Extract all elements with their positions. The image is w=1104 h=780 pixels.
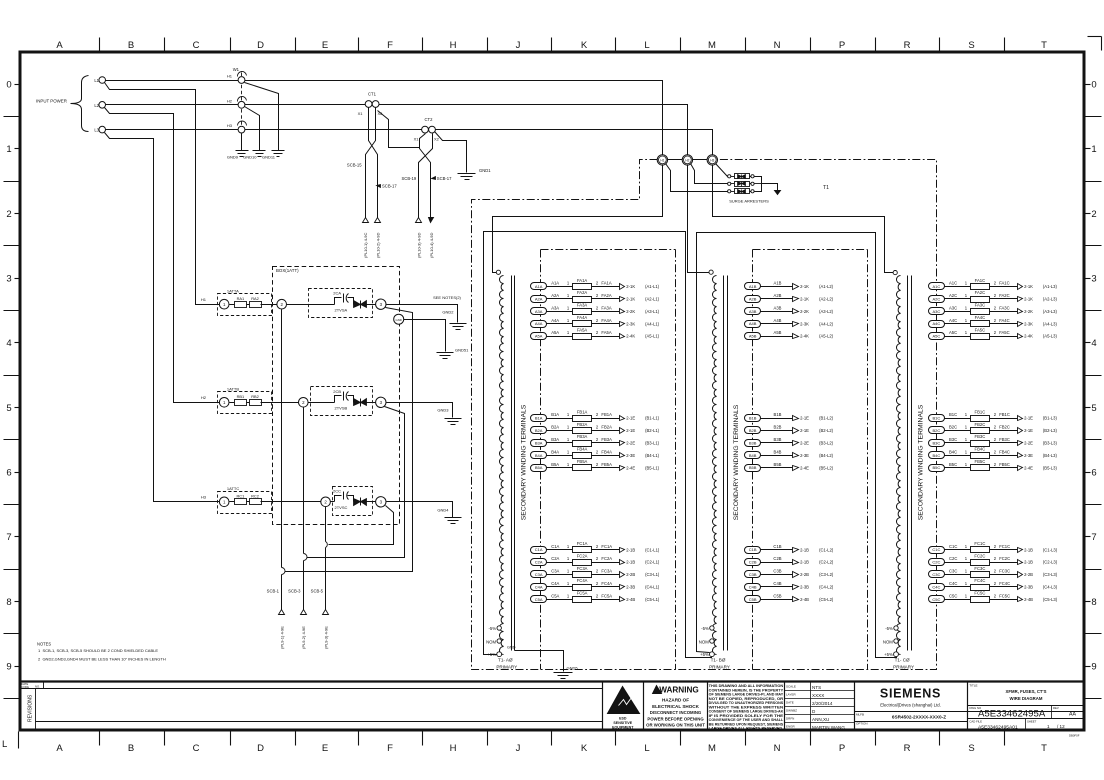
svg-text:1: 1: [1047, 724, 1050, 729]
svg-text:HAZARD OF: HAZARD OF: [662, 698, 689, 703]
svg-text:FA3A: FA3A: [577, 303, 587, 308]
bushing H3: [707, 155, 717, 165]
off-sheet arrow for A5C: [1018, 334, 1023, 339]
svg-text:A4B: A4B: [774, 318, 782, 323]
winding start node T1 phase B: [709, 270, 713, 274]
svg-text:FC2C: FC2C: [999, 556, 1010, 561]
svg-text:C2C: C2C: [932, 560, 940, 565]
tap -5% phase C: [894, 626, 898, 630]
wire L3 phase line to T1 H3: [106, 130, 713, 156]
svg-text:2-1B: 2-1B: [800, 547, 809, 552]
svg-text:(C4-L2): (C4-L2): [819, 585, 834, 590]
terminal 1 of 1ATTA: [219, 299, 229, 309]
svg-text:2-3E: 2-3E: [626, 453, 635, 458]
svg-text:FC3A: FC3A: [577, 566, 588, 571]
svg-text:FC4C: FC4C: [999, 581, 1010, 586]
terminal B2B: [745, 427, 761, 434]
terminal A3C: [929, 308, 945, 315]
svg-text:H2: H2: [227, 98, 233, 103]
svg-text:B5A: B5A: [535, 465, 543, 470]
off-sheet arrow for A2A: [620, 297, 625, 302]
svg-text:B2A: B2A: [535, 428, 543, 433]
svg-text:SECONDARY WINDING TERMINALS: SECONDARY WINDING TERMINALS: [521, 404, 528, 520]
off-sheet arrow for C5B: [793, 597, 799, 602]
wire fuse FC1C to sheet arrow: [990, 549, 1018, 551]
svg-text:FC1C: FC1C: [999, 544, 1010, 549]
svg-text:B2B: B2B: [749, 428, 757, 433]
wire fuse FC4A to sheet arrow: [592, 586, 620, 588]
svg-text:L2: L2: [94, 103, 99, 108]
svg-text:T1- AØ: T1- AØ: [498, 658, 513, 663]
svg-text:GND1: GND1: [479, 168, 491, 173]
svg-text:H2: H2: [201, 395, 207, 400]
svg-text:(C4-L3): (C4-L3): [1043, 585, 1058, 590]
svg-text:J: J: [516, 743, 521, 754]
svg-text:(B1-L3): (B1-L3): [1043, 416, 1058, 421]
wire H1-H2-H3 bus: [658, 159, 718, 161]
svg-text:(C5-L1): (C5-L1): [645, 597, 660, 602]
svg-text:GND51: GND51: [455, 348, 469, 353]
svg-text:L: L: [644, 743, 649, 754]
svg-text:FA1C: FA1C: [975, 278, 985, 283]
svg-text:(PL10-4) 4-9D: (PL10-4) 4-9D: [429, 233, 434, 258]
suppressor 2CA / 2TVSA sub-box: [309, 289, 373, 318]
wire fuse FA5C to sheet arrow: [990, 336, 1018, 338]
resistor RC2: [250, 499, 262, 505]
wire 1ATTB terminal3 drop: [307, 407, 405, 558]
svg-text:XFMR, FUSES, CT'S: XFMR, FUSES, CT'S: [1006, 689, 1047, 694]
svg-text:WARNING: WARNING: [659, 686, 699, 695]
svg-text:B3A: B3A: [535, 440, 543, 445]
svg-text:(C5-L3): (C5-L3): [1043, 597, 1058, 602]
svg-text:C4C: C4C: [932, 584, 940, 589]
svg-text:RA2: RA2: [251, 296, 259, 301]
terminal 2 of 1ATTB: [299, 398, 309, 408]
wire fuse FB1C to sheet arrow: [990, 418, 1018, 420]
svg-text:SCB-17: SCB-17: [437, 176, 452, 181]
attenuator 1ATTC sub-box: [218, 492, 272, 514]
svg-text:N: N: [774, 40, 781, 51]
svg-text:2CB: 2CB: [333, 389, 341, 394]
fuse FC5A: [573, 597, 592, 603]
ground GND5: [554, 672, 573, 674]
svg-text:C2A: C2A: [551, 556, 559, 561]
svg-text:B2C: B2C: [933, 428, 941, 433]
svg-text:2/20/2014: 2/20/2014: [812, 701, 833, 706]
primary neutral wire phase A to B: [484, 232, 712, 658]
wire 1ATTB output to GND3: [387, 403, 453, 418]
terminal A2B: [745, 296, 761, 303]
svg-text:CT1: CT1: [368, 92, 377, 97]
surge arrester 3: [728, 190, 731, 193]
svg-text:A3A: A3A: [551, 305, 559, 310]
svg-text:A5B: A5B: [749, 334, 757, 339]
terminal 3 of 1ATTA: [376, 299, 386, 309]
svg-text:1: 1: [6, 144, 11, 155]
svg-text:B1B: B1B: [774, 412, 782, 417]
wire fuse FA1C to sheet arrow: [990, 286, 1018, 288]
wire terminal A3B to sheet arrow: [760, 311, 793, 313]
resistor RA2: [250, 302, 262, 308]
terminal B4B: [745, 452, 761, 459]
terminal C1C: [929, 547, 945, 554]
wire fuse FB2A to sheet arrow: [592, 430, 620, 432]
surge arrester 1: [728, 175, 731, 178]
svg-text:8: 8: [6, 597, 11, 608]
wire terminal C1B to sheet arrow: [760, 549, 793, 551]
revision strip: [21, 682, 1085, 730]
ground GND51: [437, 352, 454, 354]
svg-text:(PL10-1) 4-9C: (PL10-1) 4-9C: [363, 233, 368, 258]
svg-text:2-2E: 2-2E: [626, 441, 635, 446]
svg-text:C3A: C3A: [535, 572, 543, 577]
svg-text:-5%: -5%: [488, 626, 496, 631]
wire terminal B5C to fuse FB5C: [944, 467, 971, 469]
wire GND terminal to GND51: [404, 320, 446, 352]
terminal 2 of 1ATTA: [277, 299, 287, 309]
svg-text:RA1: RA1: [237, 296, 245, 301]
wire terminal1 to RC1: [230, 501, 235, 503]
svg-text:B2B: B2B: [774, 425, 782, 430]
wire terminal A3A to fuse FA3A: [546, 311, 573, 313]
svg-text:H1: H1: [227, 74, 233, 79]
svg-text:FA1A: FA1A: [577, 278, 587, 283]
fuse FB4A: [573, 453, 592, 459]
svg-text:(B5-L2): (B5-L2): [819, 465, 834, 470]
svg-text:(C3-L1): (C3-L1): [645, 572, 660, 577]
svg-text:CAD FILE: CAD FILE: [969, 719, 982, 723]
wire terminal C3B to sheet arrow: [760, 574, 793, 576]
svg-text:FC5A: FC5A: [577, 591, 588, 596]
svg-text:B4B: B4B: [774, 449, 782, 454]
svg-text:FB1A: FB1A: [577, 409, 588, 414]
wire terminal A1B to sheet arrow: [760, 286, 793, 288]
switch W1 pole 3: [238, 126, 245, 133]
svg-text:C4A: C4A: [551, 581, 559, 586]
svg-text:SCB-5: SCB-5: [311, 588, 324, 593]
svg-text:FB2C: FB2C: [999, 425, 1010, 430]
svg-text:GND: GND: [507, 646, 516, 650]
svg-text:2-2B: 2-2B: [800, 572, 809, 577]
svg-text:SCB-1: SCB-1: [267, 588, 280, 593]
svg-text:0: 0: [1091, 80, 1096, 91]
svg-text:TITLE: TITLE: [969, 683, 977, 687]
connector arrow PL10-1: [363, 218, 369, 223]
off-sheet arrow for B5A: [620, 466, 625, 471]
svg-text:DRFN: DRFN: [786, 716, 794, 720]
off-sheet arrow for C2B: [793, 560, 799, 565]
winding start node T1 phase A: [496, 270, 500, 274]
svg-text:2-4K: 2-4K: [800, 334, 809, 339]
svg-text:S: S: [968, 743, 974, 754]
tap NOM phase A: [497, 639, 501, 643]
connector arrow PL9-3: [323, 610, 329, 615]
svg-text:FB4A: FB4A: [601, 449, 612, 454]
svg-text:C5A: C5A: [551, 593, 559, 598]
svg-text:C1A: C1A: [551, 544, 559, 549]
svg-text:2-1E: 2-1E: [800, 416, 809, 421]
terminal 3 of 1ATTC: [376, 497, 386, 507]
wire H3 feed to phase C winding: [713, 165, 894, 273]
svg-text:1 SCB-1, SCB-3, SCB-5 SHOULD: 1 SCB-1, SCB-3, SCB-5 SHOULD BE 2 COND S…: [38, 648, 158, 653]
svg-text:A5A: A5A: [551, 330, 559, 335]
svg-text:2-1K: 2-1K: [800, 284, 809, 289]
wire fuse FA3A to sheet arrow: [592, 311, 620, 313]
label SCB-17 with pointer at CT2: [432, 177, 436, 180]
svg-text:K: K: [581, 40, 588, 51]
svg-text:6: 6: [6, 468, 11, 479]
svg-text:A3B: A3B: [749, 309, 757, 314]
ground GND11: [272, 150, 285, 152]
svg-text:2-3K: 2-3K: [626, 321, 635, 326]
svg-text:SCB-19: SCB-19: [402, 176, 417, 181]
off-sheet arrow for B3B: [793, 441, 799, 446]
svg-text:B1A: B1A: [551, 412, 559, 417]
resistor RA1: [235, 302, 247, 308]
wire W1 pole1 blade to GND11: [245, 83, 279, 151]
svg-text:A5E33462495A01: A5E33462495A01: [978, 724, 1018, 730]
off-sheet arrow for B2B: [793, 428, 799, 434]
wire fuse FC5C to sheet arrow: [990, 599, 1018, 601]
suppressor 2CB / 2TVSB sub-box: [311, 387, 373, 416]
svg-text:A1B: A1B: [749, 284, 757, 289]
tap -5% phase B: [710, 626, 714, 630]
svg-text:PRIMARY: PRIMARY: [709, 664, 730, 669]
svg-text:FB5C: FB5C: [999, 462, 1010, 467]
svg-text:B1B: B1B: [749, 416, 757, 421]
svg-text:FA5C: FA5C: [975, 327, 985, 332]
svg-text:(C1-L2): (C1-L2): [819, 547, 834, 552]
svg-text:AA: AA: [1069, 712, 1076, 718]
svg-text:(A2-L3): (A2-L3): [1043, 297, 1058, 302]
svg-text:NOTES: NOTES: [37, 641, 51, 646]
terminal L2: [99, 102, 106, 109]
terminal A3A: [531, 308, 547, 315]
svg-text:5: 5: [6, 403, 11, 414]
svg-text:2: 2: [6, 209, 11, 220]
svg-text:(PL9-3) 4-9E: (PL9-3) 4-9E: [324, 626, 329, 649]
svg-text:2-3B: 2-3B: [626, 585, 635, 590]
svg-text:GND5: GND5: [567, 666, 579, 671]
fuse FC1A: [573, 547, 592, 553]
svg-text:2-1E: 2-1E: [1024, 428, 1033, 433]
tap +5% phase B: [710, 652, 715, 657]
svg-text:C2B: C2B: [749, 560, 757, 565]
wire fuse FB5C to sheet arrow: [990, 467, 1018, 469]
svg-text:2-1B: 2-1B: [626, 560, 635, 565]
svg-text:C1C: C1C: [949, 544, 957, 549]
terminal A1C: [929, 283, 945, 290]
wire terminal C2B to sheet arrow: [760, 562, 793, 564]
wire fuse FA2A to sheet arrow: [592, 298, 620, 300]
svg-text:C2B: C2B: [773, 556, 781, 561]
svg-text:(C2-L1): (C2-L1): [645, 560, 660, 565]
fuse FC3C: [971, 572, 990, 578]
wire terminal B4B to sheet arrow: [760, 455, 793, 457]
svg-text:A1A: A1A: [535, 284, 543, 289]
svg-text:CT2: CT2: [425, 117, 434, 122]
svg-text:-5%: -5%: [885, 626, 893, 631]
svg-text:FC3A: FC3A: [601, 569, 612, 574]
svg-text:MARTIN,WANG: MARTIN,WANG: [812, 725, 845, 730]
svg-text:FA2A: FA2A: [577, 290, 587, 295]
off-sheet arrow for A1B: [793, 284, 799, 290]
fuse FC2C: [971, 560, 990, 566]
fuse FB5A: [573, 465, 592, 471]
svg-text:T: T: [1041, 743, 1047, 754]
svg-text:0: 0: [6, 80, 11, 91]
svg-text:CODE: CODE: [22, 685, 30, 689]
wire fuse FB3A to sheet arrow: [592, 442, 620, 444]
fuse FB2A: [573, 428, 592, 434]
svg-text:X2: X2: [434, 137, 440, 142]
wire terminal A4C to fuse FA4C: [944, 323, 971, 325]
fuse FA4A: [573, 321, 592, 327]
svg-text:(A1-L2): (A1-L2): [819, 284, 834, 289]
svg-text:2-2K: 2-2K: [800, 309, 809, 314]
svg-text:2-4K: 2-4K: [1024, 334, 1033, 339]
connector arrow PL10-2: [375, 218, 381, 223]
fuse FC4C: [971, 585, 990, 591]
svg-text:(A4-L2): (A4-L2): [819, 321, 834, 326]
wire CT2 X2 to GND1: [435, 132, 467, 173]
ground GND9: [236, 150, 249, 152]
wire terminal C4C to fuse FC4C: [944, 586, 971, 588]
svg-text:FA4A: FA4A: [601, 318, 611, 323]
fuse FC5C: [971, 597, 990, 603]
svg-text:RB1: RB1: [237, 394, 245, 399]
wire terminal C2A to fuse FC2A: [546, 562, 573, 564]
svg-text:FA4C: FA4C: [975, 315, 985, 320]
svg-text:2-2B: 2-2B: [1024, 572, 1033, 577]
svg-text:A3C: A3C: [949, 305, 957, 310]
svg-text:2-4E: 2-4E: [1024, 465, 1033, 470]
svg-text:C4C: C4C: [949, 581, 957, 586]
svg-text:DB0F0F: DB0F0F: [1069, 734, 1080, 738]
svg-text:2-4B: 2-4B: [800, 597, 809, 602]
svg-text:2 GND2,GND3,GND4 MUST BE LESS: 2 GND2,GND3,GND4 MUST BE LESS THAN 10" I…: [38, 656, 166, 661]
off-sheet arrow for A2C: [1018, 297, 1023, 302]
ground GND1: [458, 173, 476, 175]
svg-text:FA4A: FA4A: [577, 315, 587, 320]
svg-text:2-4B: 2-4B: [626, 597, 635, 602]
svg-text:C2A: C2A: [535, 560, 543, 565]
svg-text:(B5-L1): (B5-L1): [645, 465, 660, 470]
wire 1ATTC terminal2 drop with twist: [325, 507, 327, 542]
svg-text:(B2-L1): (B2-L1): [645, 428, 660, 433]
svg-text:2-1E: 2-1E: [800, 428, 809, 433]
wire terminal 2 to capacitor network: [309, 402, 335, 404]
wire fuse FC1A to sheet arrow: [592, 549, 620, 551]
terminal C5A: [531, 596, 547, 603]
fuse FB4C: [971, 453, 990, 459]
svg-text:F: F: [387, 40, 393, 51]
off-sheet arrow for A1A: [620, 284, 625, 290]
svg-text:SENSITIVE: SENSITIVE: [613, 721, 632, 725]
wire H1 feed to phase A winding: [493, 165, 663, 273]
svg-text:A3C: A3C: [933, 309, 941, 314]
svg-text:Electrical|Drives (shanghai) L: Electrical|Drives (shanghai) Ltd.: [880, 703, 941, 708]
svg-text:GND2: GND2: [442, 309, 454, 314]
terminal B4A: [531, 452, 547, 459]
svg-text:2-4E: 2-4E: [626, 465, 635, 470]
svg-text:A2C: A2C: [949, 293, 957, 298]
wire terminal 2 to capacitor network: [287, 304, 335, 306]
svg-text:FA3C: FA3C: [999, 305, 1009, 310]
svg-text:DISCONNECT INCOMING: DISCONNECT INCOMING: [650, 710, 702, 715]
svg-text:+5%: +5%: [487, 652, 496, 657]
off-sheet arrow for B1A: [620, 416, 625, 421]
svg-text:C5A: C5A: [535, 597, 543, 602]
svg-text:A: A: [56, 743, 63, 754]
svg-text:B1C: B1C: [933, 416, 941, 421]
svg-text:H3: H3: [201, 495, 207, 500]
terminal B2C: [929, 427, 945, 434]
wire surge arrester to ground arrow: [762, 184, 778, 191]
svg-text:(A2-L1): (A2-L1): [645, 297, 660, 302]
off-sheet arrow for C3B: [793, 572, 799, 578]
svg-text:2-1B: 2-1B: [800, 560, 809, 565]
core lines phase B: [723, 276, 725, 651]
wire L1 tap to 1ATTA input H1: [105, 83, 220, 305]
svg-text:SHEET: SHEET: [1027, 719, 1037, 723]
svg-text:(B4-L1): (B4-L1): [645, 453, 660, 458]
title block: [603, 682, 1085, 730]
svg-text:A3A: A3A: [535, 309, 543, 314]
terminal C5B: [745, 596, 761, 603]
svg-text:A5E33462495A: A5E33462495A: [978, 709, 1046, 720]
svg-text:2CA: 2CA: [333, 291, 341, 296]
svg-text:SCB-17: SCB-17: [382, 184, 397, 189]
svg-text:2-2E: 2-2E: [800, 441, 809, 446]
svg-text:(PL9-1) 4-9E: (PL9-1) 4-9E: [280, 626, 285, 649]
svg-text:B4C: B4C: [949, 449, 957, 454]
wire L2 phase line to T1 H2: [106, 105, 688, 156]
wire RC1 to RC2: [247, 501, 250, 503]
wire surge arrester common: [755, 177, 762, 192]
svg-text:RB2: RB2: [251, 394, 259, 399]
svg-text:FC4A: FC4A: [601, 581, 612, 586]
svg-text:B3C: B3C: [933, 440, 941, 445]
svg-text:B4C: B4C: [933, 453, 941, 458]
connector arrow PL10-3: [416, 218, 422, 223]
svg-text:FB3A: FB3A: [577, 434, 588, 439]
tap +5% phase C: [894, 652, 899, 657]
svg-text:GND9: GND9: [227, 155, 239, 160]
terminal C3C: [929, 571, 945, 578]
svg-text:FB2A: FB2A: [577, 422, 588, 427]
svg-text:(B3-L3): (B3-L3): [1043, 441, 1058, 446]
bushing H1: [657, 155, 667, 165]
svg-text:B4B: B4B: [749, 453, 757, 458]
svg-text:2-1B: 2-1B: [1024, 560, 1033, 565]
terminal C2C: [929, 559, 945, 566]
resistor RB2: [250, 400, 262, 406]
svg-text:FB3C: FB3C: [975, 434, 986, 439]
svg-text:(B3-L2): (B3-L2): [819, 441, 834, 446]
wire terminal B5A to fuse FB5A: [546, 467, 573, 469]
svg-text:(C1-L1): (C1-L1): [645, 547, 660, 552]
svg-text:M: M: [708, 743, 716, 754]
svg-text:A4C: A4C: [933, 321, 941, 326]
svg-text:SURGE ARRESTERS: SURGE ARRESTERS: [729, 199, 769, 204]
svg-text:FA1A: FA1A: [601, 281, 611, 286]
wire fuse FA1A to sheet arrow: [592, 286, 620, 288]
svg-text:REV: REV: [1053, 706, 1059, 710]
svg-text:NOM: NOM: [699, 640, 709, 645]
svg-text:FA5A: FA5A: [577, 327, 587, 332]
svg-text:FA4C: FA4C: [999, 318, 1009, 323]
